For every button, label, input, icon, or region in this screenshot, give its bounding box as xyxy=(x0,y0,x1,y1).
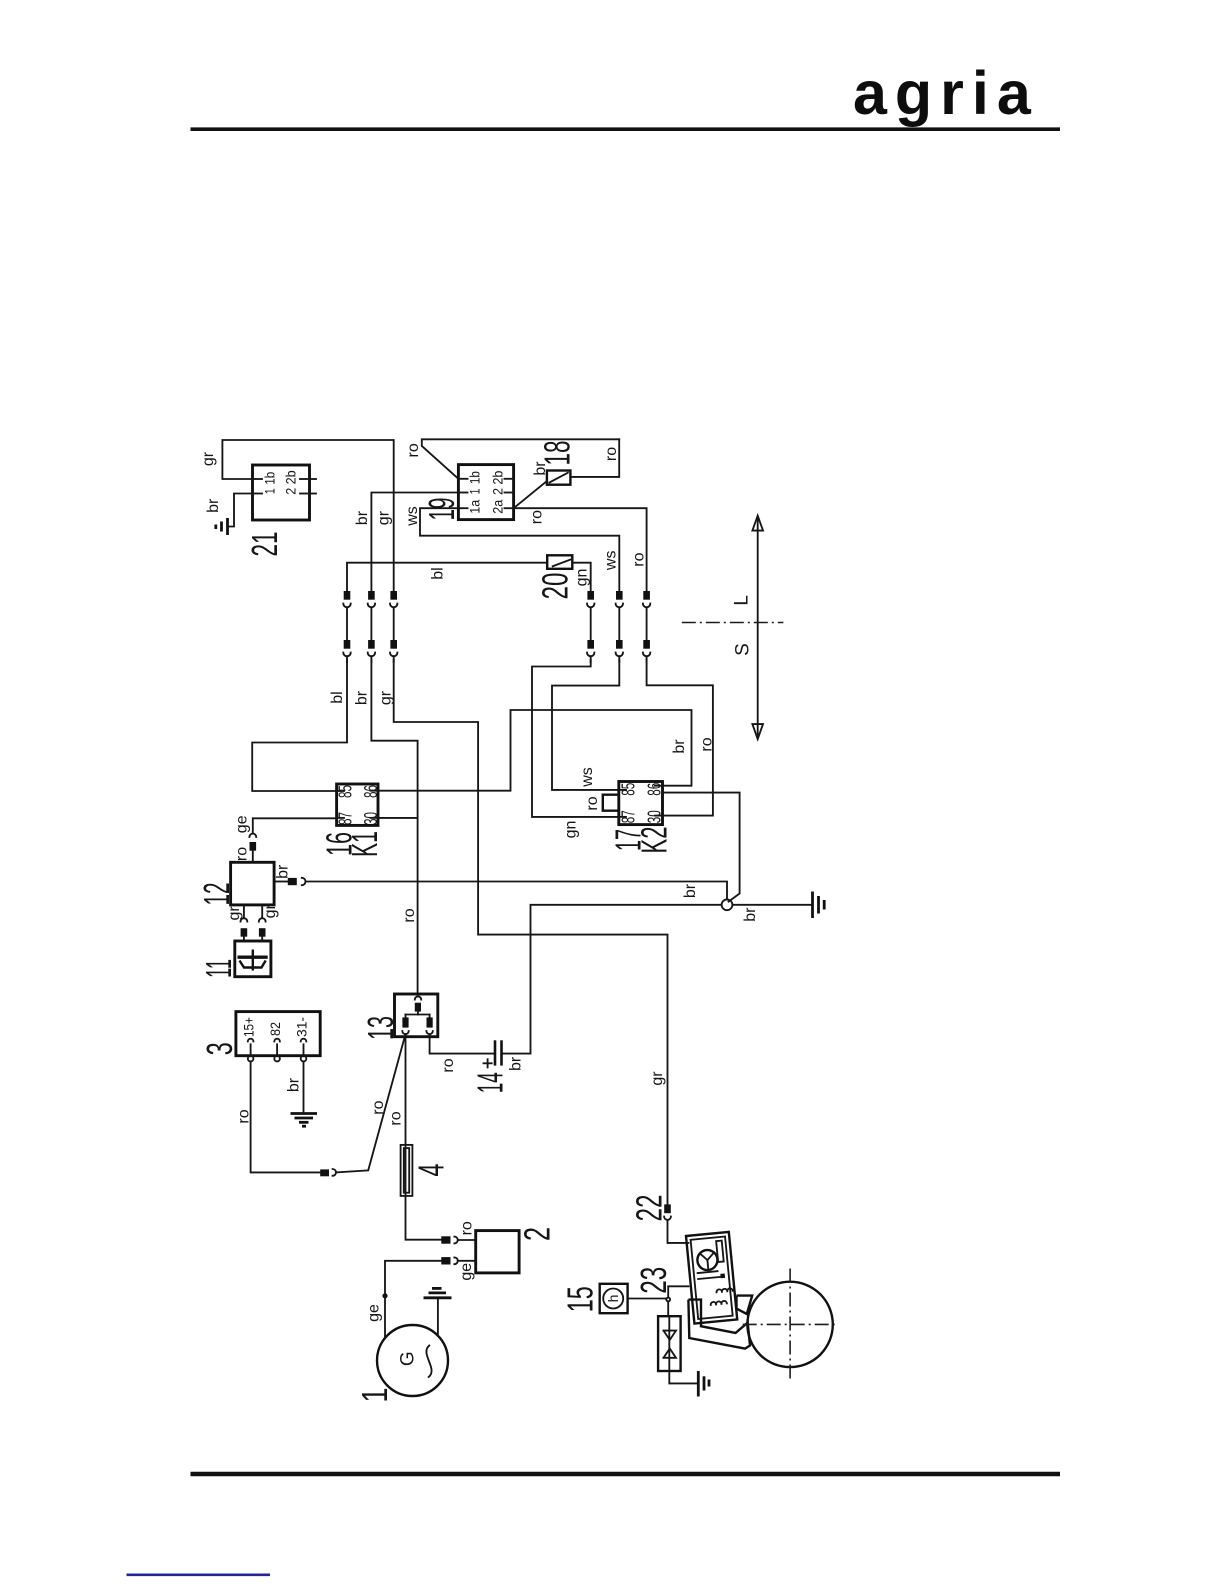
wire gr from 21 to gr-column xyxy=(222,440,393,592)
flywheel centerline horizontal xyxy=(743,1323,839,1325)
wire ws from 19 pin 1a to ws-column xyxy=(420,508,619,591)
regulator 3 body xyxy=(236,1012,320,1056)
hour meter 15 body xyxy=(600,1284,628,1313)
svg-text:2: 2 xyxy=(516,1227,557,1241)
capacitor 14 plus sign xyxy=(484,1062,492,1064)
unit 13 internal connectors bottom xyxy=(402,1017,408,1027)
relay K1 body xyxy=(337,784,378,825)
svg-text:ro: ro xyxy=(603,447,620,461)
svg-text:agria: agria xyxy=(853,59,1039,127)
connector block 21 pin ticks xyxy=(253,478,263,480)
svg-text:ro: ro xyxy=(459,1221,476,1235)
svg-text:ro: ro xyxy=(440,1058,457,1072)
unit 13 internal tee xyxy=(406,1014,430,1016)
stator upper finger xyxy=(737,1296,753,1314)
relay K2 pin ticks xyxy=(619,789,626,791)
inline connector pair upper (br column) xyxy=(368,591,375,600)
generator 1 circle xyxy=(377,1325,448,1396)
wire gn column to K2 pin 87 xyxy=(532,660,619,817)
svg-text:22: 22 xyxy=(629,1195,670,1222)
generator tilde xyxy=(426,1346,431,1378)
svg-text:2a: 2a xyxy=(490,500,506,514)
inline connector pair lower (ro column) xyxy=(643,640,650,649)
wire diode block to ground xyxy=(669,1371,697,1383)
svg-text:S: S xyxy=(733,643,754,656)
svg-text:gr: gr xyxy=(378,690,395,705)
svg-text:bl: bl xyxy=(429,567,446,579)
svg-text:13: 13 xyxy=(360,1016,401,1040)
ground at diode block (pointing right) xyxy=(697,1371,700,1397)
diode block internal wire xyxy=(668,1316,670,1371)
svg-text:21: 21 xyxy=(244,532,285,557)
junction dot ge xyxy=(382,1293,387,1298)
wire ge from 2 with connector xyxy=(458,1260,476,1262)
inline connector pair upper (ro column) xyxy=(643,591,650,600)
svg-text:ro: ro xyxy=(405,443,422,457)
svg-text:ro: ro xyxy=(631,552,648,566)
regulator 3 pin hooks xyxy=(248,1039,254,1042)
svg-text:ro: ro xyxy=(370,1100,387,1114)
svg-text:br: br xyxy=(354,690,371,705)
wire ro from 3 pin 15+ to connector xyxy=(251,1061,321,1172)
flywheel circle xyxy=(747,1282,832,1367)
svg-text:86: 86 xyxy=(361,785,381,798)
wire ro connector to 13 (diagonal) xyxy=(336,1034,406,1172)
svg-text:12: 12 xyxy=(196,883,237,906)
svg-text:gn: gn xyxy=(574,569,591,587)
svg-text:ge: ge xyxy=(365,1304,382,1322)
svg-text:ro: ro xyxy=(388,1111,405,1125)
wire br from 21 to ground xyxy=(228,494,253,527)
connector on wire to 2 (upper) xyxy=(441,1236,450,1243)
unit 12 lower connectors to horn 11 xyxy=(243,905,245,918)
svg-text:ro: ro xyxy=(234,847,251,861)
svg-text:4: 4 xyxy=(411,1164,452,1177)
wire bl from bl-column to 20 xyxy=(347,563,547,592)
svg-text:14: 14 xyxy=(470,1072,511,1093)
fuse 4 body xyxy=(401,1145,413,1196)
wire gn from 20 to gn-column xyxy=(572,563,590,592)
switch 2 body xyxy=(476,1231,519,1273)
wire K1 pin 30 stub xyxy=(378,817,418,819)
fuse 18 body xyxy=(547,471,571,485)
ground right of junction (pointing right) xyxy=(811,892,814,919)
svg-text:87: 87 xyxy=(335,812,355,825)
direction arrow centerline xyxy=(682,622,784,624)
svg-text:ro: ro xyxy=(584,796,601,810)
svg-text:br: br xyxy=(275,864,292,879)
svg-text:K1: K1 xyxy=(344,831,385,857)
svg-text:bl: bl xyxy=(329,691,346,703)
svg-text:30: 30 xyxy=(645,810,665,823)
svg-text:br: br xyxy=(354,510,371,525)
connector above 12 (cup+plug) xyxy=(249,834,256,837)
relay K2 body xyxy=(619,782,663,825)
wire ro from 13 to capacitor 14 xyxy=(430,1034,494,1053)
wire ge junction to generator xyxy=(384,1298,386,1336)
ground at 21 (pointing left) xyxy=(226,518,229,535)
svg-text:1a: 1a xyxy=(467,500,483,514)
wire ws column to K2 pin 85 xyxy=(552,660,619,790)
wire ro top into 19 pin 1b xyxy=(422,439,619,479)
svg-text:85: 85 xyxy=(335,785,355,798)
unit 12 right plug connector xyxy=(274,881,288,883)
wire br from K2 pin 86 to junction xyxy=(663,793,740,902)
svg-text:2: 2 xyxy=(283,488,299,495)
ground above generator (pointing up) xyxy=(424,1296,452,1299)
ignition module 23 body xyxy=(686,1232,737,1324)
relay K2 side tab xyxy=(603,795,619,811)
control unit 12 body xyxy=(231,862,275,905)
svg-text:2b: 2b xyxy=(490,470,506,484)
connector 22 (plug+cup) xyxy=(664,1204,671,1213)
svg-text:K2: K2 xyxy=(634,827,675,854)
direction arrow head L (up) xyxy=(752,516,763,531)
svg-text:ge: ge xyxy=(233,815,250,833)
svg-text:br: br xyxy=(742,907,759,922)
stator pole claw xyxy=(688,1300,750,1349)
svg-text:G: G xyxy=(398,1351,419,1366)
svg-text:1: 1 xyxy=(467,488,483,494)
diode 1 (down) xyxy=(664,1331,677,1340)
wire br from 19 pin 1 to br-column xyxy=(371,493,458,592)
svg-text:1: 1 xyxy=(354,1388,395,1403)
svg-text:gr: gr xyxy=(200,451,217,466)
svg-text:ro: ro xyxy=(699,737,716,751)
wire ro column to K2 pin 30 xyxy=(647,660,713,816)
unit 13 internal connector top xyxy=(415,996,421,999)
connector on ro wire (3 to 13) xyxy=(320,1169,329,1176)
wire 15 to junction xyxy=(628,1298,667,1300)
hour meter 15 circle xyxy=(603,1289,623,1309)
svg-text:gr: gr xyxy=(376,510,393,525)
junction circle (br node) xyxy=(722,899,733,910)
wire br from 18 to 19 pin 2a xyxy=(514,481,547,508)
inline connector pair lower (gr column) xyxy=(390,640,397,649)
svg-text:ws: ws xyxy=(602,551,619,572)
wire br column to K1 pin 30 rail xyxy=(371,660,417,995)
wire gr column to connector 22 xyxy=(394,660,668,1204)
junction circle small xyxy=(666,1298,670,1302)
svg-text:br: br xyxy=(682,883,699,898)
wire from 22 to ignition module xyxy=(668,1220,689,1243)
capacitor 14 plates xyxy=(494,1040,497,1065)
blue footer link line xyxy=(127,1574,271,1577)
svg-text:20: 20 xyxy=(534,573,575,600)
svg-text:1b: 1b xyxy=(467,471,483,484)
svg-text:gr: gr xyxy=(262,904,279,919)
svg-text:br: br xyxy=(507,1056,524,1071)
wire br junction to capacitor 14 xyxy=(502,905,722,1054)
wire junction to ground xyxy=(732,904,812,906)
fuse 20 body xyxy=(547,555,572,569)
svg-text:ro: ro xyxy=(529,510,546,524)
wire loop K1 pin 86 to K2 pin 86 xyxy=(378,710,692,791)
inline connector pair upper (gn column) xyxy=(587,591,594,600)
connector block 21 body xyxy=(253,465,310,520)
svg-text:br: br xyxy=(532,461,549,476)
wire br from 3 pin 31- to ground xyxy=(303,1061,305,1111)
svg-text:ro: ro xyxy=(401,908,418,922)
connector block 19 body xyxy=(458,465,513,520)
starter unit 13 body xyxy=(395,994,438,1037)
svg-text:h: h xyxy=(605,1295,621,1303)
svg-text:br: br xyxy=(286,1077,303,1092)
svg-text:ws: ws xyxy=(404,506,421,527)
svg-text:ro: ro xyxy=(236,1109,253,1123)
footer rule xyxy=(191,1472,1061,1476)
horn 11 body xyxy=(235,941,271,977)
inline connector pair lower (br column) xyxy=(368,640,375,649)
direction arrow shaft xyxy=(757,519,759,736)
svg-text:3: 3 xyxy=(199,1042,240,1055)
svg-text:br: br xyxy=(205,498,222,513)
inline connector pair upper (ws column) xyxy=(616,591,623,600)
svg-text:1: 1 xyxy=(262,488,278,494)
svg-text:br: br xyxy=(671,739,688,754)
svg-text:86: 86 xyxy=(645,783,665,796)
wire K1 pin 87 to connector above 12 xyxy=(253,818,337,833)
svg-text:15: 15 xyxy=(559,1286,600,1312)
flywheel centerline vertical xyxy=(789,1269,791,1381)
wire br from 12 to junction circle xyxy=(306,882,728,900)
svg-text:gr: gr xyxy=(226,906,243,921)
connector block 19 pin ticks xyxy=(458,478,467,480)
svg-text:gn: gn xyxy=(563,821,580,839)
wire module to diode box xyxy=(668,1286,688,1297)
svg-text:82: 82 xyxy=(267,1022,283,1036)
inline connector pair lower (ws column) xyxy=(616,640,623,649)
wire ro from top rail down to fuse 18 xyxy=(570,439,619,477)
regulator 3 terminal circles xyxy=(248,1056,254,1062)
wire bl column to K1 pin 85 xyxy=(252,660,347,791)
diode 2 (up) xyxy=(664,1349,677,1358)
svg-text:87: 87 xyxy=(618,810,638,823)
svg-text:11: 11 xyxy=(198,959,239,978)
svg-text:2b: 2b xyxy=(283,470,299,484)
wire ro from 13 through fuse 4 to connector xyxy=(406,1034,442,1239)
svg-text:ge: ge xyxy=(458,1263,475,1281)
inline connector pair lower (gn column) xyxy=(587,640,594,649)
svg-text:31-: 31- xyxy=(294,1017,310,1037)
horn 11 symbol xyxy=(238,956,268,959)
diode block body xyxy=(658,1316,681,1371)
svg-text:ws: ws xyxy=(579,767,596,788)
ground below 3 (pointing down) xyxy=(291,1112,318,1115)
header rule xyxy=(191,127,1061,131)
inline connector pair upper (gr column) xyxy=(390,591,397,600)
inline connector pair lower (bl column) xyxy=(344,640,351,649)
svg-text:gr: gr xyxy=(649,1071,666,1086)
svg-text:30: 30 xyxy=(361,812,381,825)
svg-text:15+: 15+ xyxy=(241,1017,257,1037)
generator ground stem xyxy=(437,1298,439,1336)
relay K1 pin ticks xyxy=(337,790,344,792)
svg-text:85: 85 xyxy=(618,783,638,796)
svg-text:1b: 1b xyxy=(262,472,278,485)
inline connector pair upper (bl column) xyxy=(344,591,351,600)
svg-text:2: 2 xyxy=(490,488,506,495)
svg-text:L: L xyxy=(731,595,752,606)
wire ro from 19 pin 2a to ro-column xyxy=(514,508,647,591)
direction arrow head S (down) xyxy=(752,724,763,739)
